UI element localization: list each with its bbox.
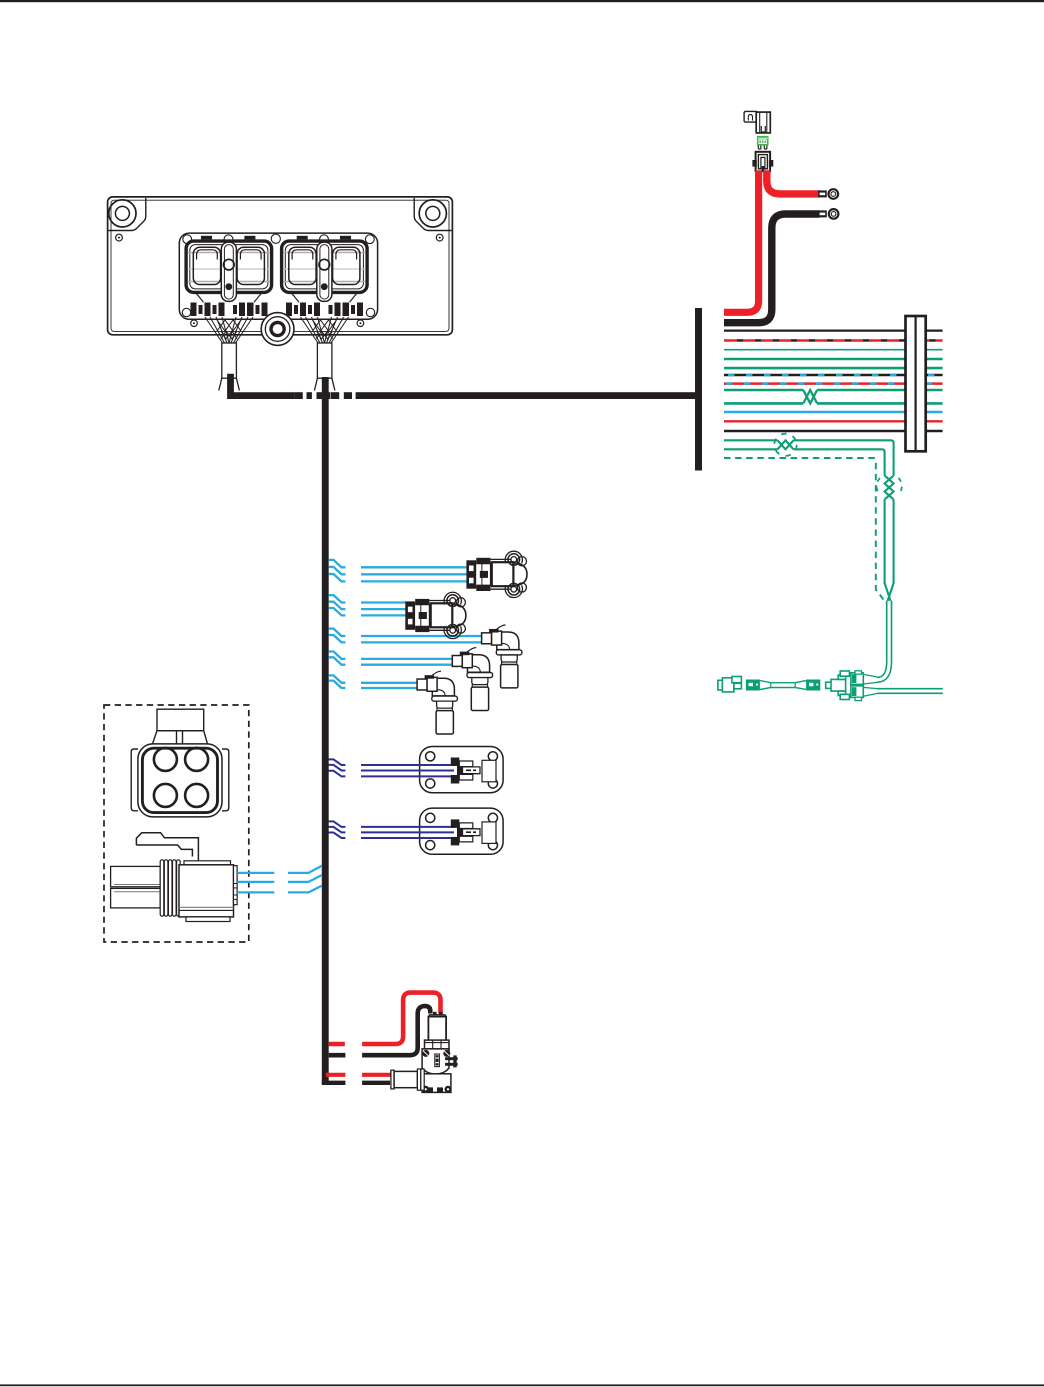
4-pin connector side view body <box>179 861 237 922</box>
fuse holder cap <box>744 111 770 132</box>
CAN terminator connector far left <box>718 677 742 692</box>
twisted pair symbol circled on CAN A-B <box>774 434 796 456</box>
ECM screw top-right <box>436 234 443 241</box>
battery positive branch to ring terminal <box>767 171 820 194</box>
4-pin connector front view tab <box>153 709 208 744</box>
CKP sensor 1 bundle 2 blue wires <box>329 629 483 643</box>
fuel pump connector red wire <box>326 1073 391 1077</box>
harness bundle wire 1 black <box>724 330 943 332</box>
injector 2 bundle 3 navy wires <box>329 821 455 838</box>
ECM cable A sleeve <box>219 343 240 391</box>
bulkhead connector double bar <box>906 316 926 451</box>
harness trunk vertical <box>322 377 329 1085</box>
ECM mounting ear top-right <box>414 198 451 231</box>
harness bundle wire 2 red w black tracer <box>724 339 943 341</box>
ECM pin row bay B <box>286 303 363 317</box>
battery negative cable black <box>724 214 820 323</box>
MAP sensor 2 <box>405 592 466 638</box>
harness solid run to junction bar <box>356 392 696 399</box>
harness bundle wire 10 blue <box>724 411 943 414</box>
ECM cable B sleeve <box>314 343 335 391</box>
CAN vertical twisted symbol <box>877 476 902 500</box>
CAN pair below twist <box>885 500 894 605</box>
MAP sensor 2 bundle 3 blue wires <box>329 595 407 615</box>
injector plate 1 <box>420 747 504 793</box>
CAN sheathed cable down to connectors <box>877 601 889 680</box>
injector plate 2 <box>420 808 504 854</box>
harness thick L from cable A <box>231 374 295 396</box>
battery positive cable red <box>724 171 759 313</box>
red ring terminal <box>818 188 839 200</box>
ECM pin row bay A <box>191 303 268 317</box>
twisted pair symbol wires 8-9 <box>803 390 817 403</box>
CAN bus green wire A <box>724 440 894 475</box>
harness bundle wire 8 green CAN hi <box>724 389 943 392</box>
4-pin connector side view lock lever <box>136 833 198 861</box>
harness bundle wire 11 red <box>724 420 943 422</box>
MAP sensor 1 <box>466 551 527 597</box>
harness dashed section <box>295 392 352 399</box>
fuel pump connector black wire <box>322 1081 390 1085</box>
MAP sensor bundle 3 blue wires <box>329 560 468 582</box>
CKP sensor 2 bundle 2 blue wires <box>329 652 454 665</box>
ECM screw top-left <box>116 234 123 241</box>
CAN bus green wire B <box>724 449 885 475</box>
4-pin connector side view wire seals <box>111 866 161 908</box>
CAN extension cable <box>746 680 820 691</box>
harness bundle wire 5 green <box>724 367 943 370</box>
CKP sensor 3 bundle 2 blue wires <box>329 675 419 688</box>
fuse 20A <box>757 136 769 149</box>
ECM screw bottom-left <box>191 320 198 327</box>
ECM cable A wire fan <box>205 317 253 343</box>
CAN dashed termination wire <box>724 458 884 600</box>
harness bundle wire 9 green CAN lo <box>724 402 943 405</box>
CKP sensor 3 elbow <box>417 671 457 734</box>
ECM screw bottom-right <box>357 320 364 327</box>
4-pin connector front view body <box>131 744 229 817</box>
junction bar <box>695 308 702 471</box>
ECM module PCM outer case <box>108 197 453 335</box>
CKP sensor 1 elbow <box>482 625 522 688</box>
harness bundle wire 7 red w blue tracer <box>724 382 943 385</box>
ECM grommet <box>261 313 294 346</box>
harness bundle wire 6 black w blue tracer <box>724 374 943 377</box>
4-pin connector side view ribs <box>160 860 180 916</box>
harness bundle wire 3 green thin <box>724 349 943 351</box>
ECM connector bay B <box>282 241 368 302</box>
callout sensor 3 blue wires to trunk <box>237 866 322 893</box>
top border line <box>0 0 1044 2</box>
CAN plug upper right <box>851 671 877 685</box>
fuse holder base <box>752 152 773 172</box>
CAN plug lower right w cable <box>851 686 943 701</box>
harness bundle wire 4 green <box>724 358 943 361</box>
ECM mounting ear top-left <box>109 198 146 231</box>
black ring terminal <box>818 208 839 220</box>
fuel pump ground black wire <box>329 1006 431 1055</box>
harness bundle wire 12 black <box>724 430 943 433</box>
bottom border line <box>0 1384 1044 1386</box>
CKP sensor 2 elbow <box>452 648 492 711</box>
ECM cable B wire fan <box>301 317 349 343</box>
injector 1 bundle 3 navy wires <box>329 759 455 776</box>
detail callout dashed box <box>104 705 249 942</box>
fuel pump assembly <box>391 1012 458 1093</box>
ECM connector housing <box>179 233 377 319</box>
ECM connector bay A <box>186 241 272 302</box>
CAN T splitter <box>826 671 850 700</box>
injector 1 connector <box>451 758 480 784</box>
fuel pump supply red wire <box>329 993 441 1044</box>
injector 2 connector <box>451 819 480 845</box>
